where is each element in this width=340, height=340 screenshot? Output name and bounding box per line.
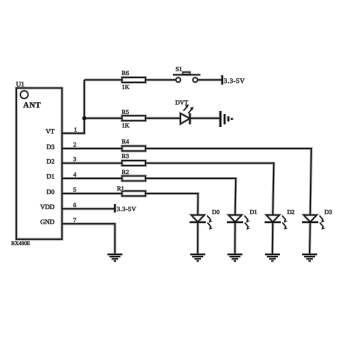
svg-text:R6: R6: [122, 70, 129, 77]
svg-text:D0: D0: [212, 209, 220, 216]
svg-text:DVT: DVT: [175, 99, 188, 106]
svg-text:7: 7: [73, 218, 76, 224]
svg-text:1K: 1K: [122, 122, 130, 129]
svg-text:5: 5: [73, 187, 76, 193]
svg-text:D2: D2: [46, 158, 54, 165]
svg-text:R4: R4: [122, 139, 129, 146]
svg-text:4: 4: [73, 172, 76, 178]
svg-text:D3: D3: [46, 144, 55, 151]
svg-text:RX480E: RX480E: [11, 241, 31, 247]
svg-text:R3: R3: [122, 153, 129, 160]
svg-text:D1: D1: [250, 209, 258, 216]
svg-text:R2: R2: [122, 169, 129, 176]
svg-text:3.3-5V: 3.3-5V: [117, 206, 137, 213]
svg-text:S1: S1: [176, 66, 183, 73]
svg-text:R5: R5: [122, 109, 129, 116]
svg-text:VT: VT: [46, 129, 55, 136]
svg-text:3.3-5V: 3.3-5V: [224, 78, 245, 85]
svg-text:U1: U1: [16, 80, 25, 88]
svg-text:3: 3: [73, 157, 76, 163]
svg-text:D1: D1: [46, 174, 54, 181]
svg-text:D3: D3: [324, 209, 332, 216]
svg-text:GND: GND: [40, 219, 55, 226]
svg-text:ANT: ANT: [23, 100, 41, 109]
svg-text:1K: 1K: [122, 84, 130, 91]
svg-text:VDD: VDD: [40, 204, 55, 211]
svg-text:1: 1: [74, 127, 77, 133]
svg-text:2: 2: [73, 143, 76, 149]
svg-text:D0: D0: [46, 189, 55, 196]
svg-text:R1: R1: [117, 186, 124, 193]
svg-text:6: 6: [73, 203, 76, 209]
svg-text:D2: D2: [287, 209, 295, 216]
